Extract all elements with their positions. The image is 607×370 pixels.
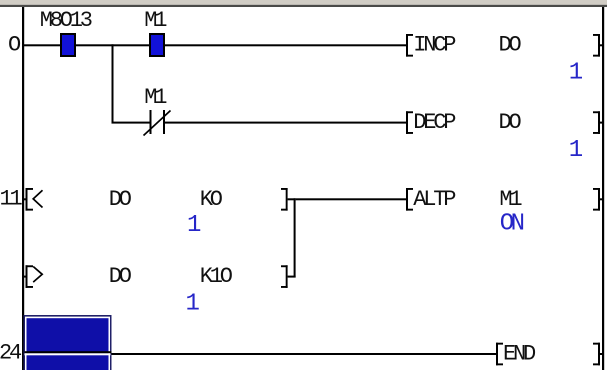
wire rung2 junction to ALTP <box>296 198 407 200</box>
svg-text:M8O13: M8O13 <box>40 8 92 33</box>
svg-text:24: 24 <box>0 341 22 366</box>
wire rung0 M8013 to M1 <box>76 44 149 46</box>
node branch junction <box>112 44 114 123</box>
svg-text:ALTP: ALTP <box>413 187 456 212</box>
svg-text:KO: KO <box>200 187 223 212</box>
svg-text:DO: DO <box>499 33 522 58</box>
contact M1 normally-closed <box>150 110 152 134</box>
left power rail <box>22 7 24 370</box>
svg-text:END: END <box>503 341 536 366</box>
svg-text:DO: DO <box>109 187 132 212</box>
compare right bracket row3 <box>286 265 288 288</box>
svg-text:K1O: K1O <box>200 264 233 289</box>
instruction INCP D0 left bracket <box>406 34 408 57</box>
wire stub rail to compare bracket row3 <box>24 276 27 278</box>
compare contact < D0 K0 left bracket <box>26 188 28 211</box>
svg-text:M1: M1 <box>144 8 167 33</box>
compare right bracket <box>286 188 288 211</box>
contact M1 (ON, filled blue) <box>149 33 165 57</box>
compare contact > D0 K10 left bracket <box>26 265 28 288</box>
instruction DECP right bracket <box>598 111 600 134</box>
instruction DECP D0 left bracket <box>406 111 408 134</box>
svg-text:DO: DO <box>499 110 522 135</box>
svg-text:11: 11 <box>0 187 23 212</box>
instruction ALTP M1 left bracket <box>406 188 408 211</box>
cursor cell (selected, navy) <box>24 315 112 370</box>
wire rung1 to DECP <box>165 122 406 124</box>
svg-text:DECP: DECP <box>413 110 456 135</box>
svg-text:INCP: INCP <box>413 33 456 58</box>
right power rail <box>602 7 604 370</box>
wire rung4 cursor to END <box>112 353 497 355</box>
symbol < <box>33 190 42 207</box>
svg-text:ON: ON <box>500 211 524 238</box>
svg-text:M1: M1 <box>499 187 522 212</box>
svg-text:M1: M1 <box>144 85 167 110</box>
toolbar strip <box>0 0 607 5</box>
contact M8013 (ON, filled blue) <box>60 33 76 57</box>
node compare OR junction vertical <box>294 198 296 277</box>
symbol > <box>33 267 42 283</box>
instruction END right bracket <box>598 343 600 366</box>
wire rung0 M1 to INCP <box>165 44 406 46</box>
instruction END left bracket <box>496 343 498 366</box>
wire rung0 rail to contact M8013 <box>24 44 60 46</box>
wire rung1 branch to NC contact <box>112 122 150 124</box>
instruction INCP right bracket <box>598 34 600 57</box>
wire stub rail to compare bracket <box>24 198 27 200</box>
svg-text:DO: DO <box>109 264 132 289</box>
instruction ALTP right bracket <box>598 188 600 211</box>
wire inside cursor <box>25 351 112 353</box>
